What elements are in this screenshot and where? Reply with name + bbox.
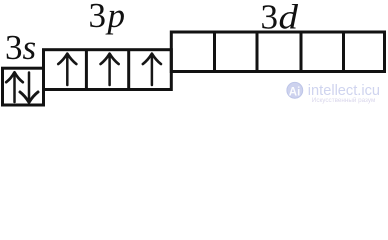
svg-text:s: s xyxy=(23,28,37,67)
svg-text:3: 3 xyxy=(89,0,107,35)
svg-text:Искусственный разум: Искусственный разум xyxy=(312,96,376,104)
svg-text:Ai: Ai xyxy=(289,86,301,98)
svg-text:p: p xyxy=(105,0,126,35)
svg-text:d: d xyxy=(279,0,299,37)
svg-text:3: 3 xyxy=(261,0,279,37)
svg-text:3: 3 xyxy=(5,28,23,67)
